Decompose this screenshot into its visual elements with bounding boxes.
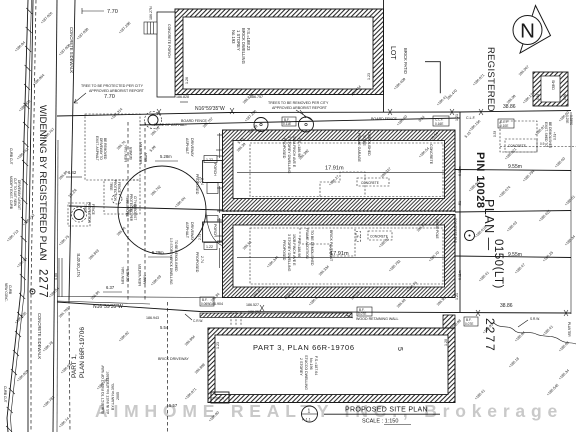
text EXIST 3 STOREY rotated mid [169,238,178,285]
sidewalk west line [57,140,58,432]
svg-text:FRAME GARAGE: FRAME GARAGE [357,133,361,163]
svg-text:A-1.1: A-1.1 [302,418,311,422]
text 7.70 lower [104,94,115,100]
exist shed to be demolished dashed [493,121,557,152]
svg-text:186.527: 186.527 [246,303,259,307]
svg-text:38.86: 38.86 [503,104,516,110]
svg-text:TREES TO BE REMOVED PER C: TREES TO BE REMOVED PER CITY [268,101,329,105]
svg-text:38.86: 38.86 [500,303,513,309]
svg-text:186.27N: 186.27N [149,6,153,20]
svg-text:N: N [520,20,535,43]
svg-text:C.L.F.: C.L.F. [435,118,443,122]
svg-text:AIMHOME REALTY INC., Brokerage: AIMHOME REALTY INC., Brokerage [95,401,563,421]
svg-text:NEW WATER: NEW WATER [138,264,142,286]
svg-text:N16°59'35"W: N16°59'35"W [93,304,123,310]
svg-text:186.257: 186.257 [248,310,261,314]
svg-text:2.74: 2.74 [200,256,204,263]
text 2 STOREY STUCCO DWELLING [299,355,318,390]
text NEW SAN SEWER lower [121,266,130,284]
svg-text:C.R.W.: C.R.W. [193,319,203,323]
svg-text:FENCE: FENCE [117,182,121,193]
top area labels [110,21,407,123]
street curb west edge [7,0,32,432]
svg-text:192B FINCH AVE E: 192B FINCH AVE E [292,234,296,266]
svg-text:CONCRETE PORCH: CONCRETE PORCH [167,24,171,59]
svg-text:DRIVEWAY: DRIVEWAY [190,138,194,157]
tree circle 2 [254,118,268,132]
svg-text:F.S.=186.96: F.S.=186.96 [297,238,301,257]
title bubble [302,406,318,422]
svg-text:0.06W: 0.06W [201,302,210,306]
svg-text:N16°59'35"W: N16°59'35"W [195,106,225,112]
svg-text:PORCH: PORCH [213,224,217,237]
svg-text:2 STOREY: 2 STOREY [299,358,303,376]
text 1.22 lower [204,243,217,250]
svg-text:PART 3, PLAN 66R-19706: PART 3, PLAN 66R-19706 [253,343,355,352]
svg-text:5.57: 5.57 [169,403,178,408]
dashed stub lines [231,312,241,325]
text 5.29m [148,250,172,257]
svg-text:6.11m: 6.11m [458,270,462,280]
svg-text:CURB: CURB [8,285,12,294]
upper dwelling spot labels [236,132,439,187]
svg-text:9.55m: 9.55m [508,252,522,258]
svg-text:REGISTERED: REGISTERED [485,47,496,112]
svg-text:DEMOLISHED: DEMOLISHED [367,132,371,156]
street centerline dashed [31,0,36,432]
svg-text:6.37: 6.37 [106,285,115,290]
svg-text:WIDENING BY REGISTERED PLAN: WIDENING BY REGISTERED PLAN [37,105,48,261]
svg-text:No.193: No.193 [231,30,236,44]
svg-text:7.70: 7.70 [104,94,115,100]
label B.F. 0.07E mid [357,307,372,316]
svg-text:BE REMOVED: BE REMOVED [103,138,107,160]
board fence line [140,117,460,125]
svg-text:FENCE: FENCE [91,204,95,215]
right lot edge vertical 2 [570,112,572,314]
svg-text:PROPOSED: PROPOSED [282,240,286,261]
bottom left spot labels [96,331,220,423]
svg-text:AS IN INST. No.ATB41897,: AS IN INST. No.ATB41897, [106,371,110,414]
svg-text:DRIVEWAY: DRIVEWAY [190,222,194,241]
svg-text:9.55m: 9.55m [508,164,522,170]
north boundary line [57,108,571,116]
svg-text:APPROVED ARBORIST REPORT: APPROVED ARBORIST REPORT [272,106,328,110]
svg-text:CONCRETE: CONCRETE [361,181,379,185]
svg-text:No.196: No.196 [309,358,313,370]
svg-text:DRIVEWAY TO: DRIVEWAY TO [99,138,103,160]
svg-text:PLANTER: PLANTER [567,322,571,337]
svg-text:1.22: 1.22 [206,158,213,162]
text PROPOSED SITE PLAN [324,407,440,425]
porch stairs [144,22,157,34]
tree circle 3 [299,117,314,132]
lower dwelling demolition outline [250,228,443,284]
svg-text:EXIST. SHED TO: EXIST. SHED TO [544,122,548,147]
porch dimension column [217,133,222,268]
tree circle 1 [145,112,162,129]
svg-text:DRIVEWAY LAYOUT: DRIVEWAY LAYOUT [17,180,21,210]
text 7.70 top [82,8,118,15]
building No.193 walls [175,9,384,95]
svg-text:1.20: 1.20 [444,339,448,346]
svg-text:6.42: 6.42 [68,170,77,175]
lower dwelling spot labels [242,222,440,293]
svg-text:C.L.F.: C.L.F. [466,116,476,120]
svg-text:4.00: 4.00 [54,273,58,280]
svg-text:1.5 STOREY BRICK DWELLING: 1.5 STOREY BRICK DWELLING [169,238,173,285]
shed hatched [533,72,568,106]
svg-text:0.9: 0.9 [540,142,545,146]
svg-text:0.31+: 0.31+ [553,132,557,140]
building No.196 right wall extension [443,315,455,328]
svg-text:APPROVED ARBORIST REPORT: APPROVED ARBORIST REPORT [89,89,145,93]
curb hatch ticks [6,8,32,432]
south boundary small labels [146,292,570,397]
concrete pad lower [356,231,392,242]
street edge line [53,0,57,432]
right lot edge vertical [459,112,461,312]
svg-text:BY-LAW No.393-: BY-LAW No.393- [111,382,115,410]
svg-text:0.16E: 0.16E [435,122,443,126]
right side rotated dims [455,114,472,300]
text TREE TO BE PROTECTED note [74,84,145,103]
new sanitary sewer dashed [127,122,129,300]
svg-text:1.23: 1.23 [216,342,220,349]
svg-text:PROPOSED: PROPOSED [195,174,199,195]
lower dwelling 192B walls [223,215,456,298]
text 6.42 with dim [66,170,82,177]
svg-text:WOOD RETAINING WALL: WOOD RETAINING WALL [356,317,399,321]
lot line right middle [455,211,571,213]
svg-text:0.11E: 0.11E [283,122,291,126]
svg-text:SCALE : 1:150: SCALE : 1:150 [362,419,398,425]
driveway arc to porch [206,212,223,246]
svg-text:F.S.=187.64: F.S.=187.64 [314,356,318,375]
svg-text:NEW SAN.: NEW SAN. [124,144,128,162]
wood retaining wall [200,313,399,321]
label C.L.F. 0.10E [498,119,514,128]
svg-text:2.74: 2.74 [200,178,204,185]
svg-text:CONCRETE PAD: CONCRETE PAD [453,218,457,244]
label C.L.F. mid [433,116,449,126]
text PROPOSED ASPHALT DRIVEWAY lower [185,222,204,273]
text WOOD POLE [435,218,475,244]
text 5.28m [155,154,178,161]
svg-text:0.07E: 0.07E [465,322,473,326]
svg-text:CURB CUT: CURB CUT [9,148,13,165]
svg-text:17.91m: 17.91m [325,166,344,172]
upper dwelling demolition outline [250,143,443,197]
lot line right 9.55 upper [455,170,571,171]
svg-text:1.23: 1.23 [367,73,371,80]
svg-text:PROPOSED SITE PLAN: PROPOSED SITE PLAN [345,407,428,414]
upper dwelling 192A walls [223,130,456,211]
text PART 1 PLAN 66R-19706 [71,327,86,378]
svg-text:TREE TO BE PROTECTED PER: TREE TO BE PROTECTED PER CITY [81,84,144,88]
svg-text:EXIST. ASPHALT: EXIST. ASPHALT [95,136,99,161]
svg-text:BRICK DRIVEWAY: BRICK DRIVEWAY [158,357,189,361]
dashed line right upper [500,146,576,148]
dashed line brick driveway west [167,302,169,432]
text FRAME GARAGE TO BE DEMOLISHED [357,132,371,163]
svg-text:CONCRETE: CONCRETE [508,144,526,148]
upper porch [198,161,222,194]
north arrow [513,6,551,54]
svg-text:3 STOREY DWELLING: 3 STOREY DWELLING [287,136,291,174]
svg-text:F.S.=188.23: F.S.=188.23 [246,28,251,51]
svg-text:CUT TO SUIT NEW: CUT TO SUIT NEW [13,178,17,206]
svg-text:3 STOREY DWELLING: 3 STOREY DWELLING [287,234,291,272]
text PROPOSED 3 STOREY 192A [282,136,301,174]
svg-text:TO BE DEMOLISHED: TO BE DEMOLISHED [174,240,178,272]
svg-text:186.943: 186.943 [146,316,159,320]
svg-text:PLAN 66R-19706: PLAN 66R-19706 [79,327,86,378]
svg-text:2005: 2005 [116,392,120,400]
svg-text:NEW WATER: NEW WATER [139,142,143,164]
svg-text:ASPHALT: ASPHALT [185,138,189,155]
text TREES TO BE REMOVED note [268,101,329,121]
sidewalk east line [69,0,75,300]
svg-text:FRAME ADDITION: FRAME ADDITION [305,228,309,259]
svg-text:MAIN: MAIN [144,153,148,162]
svg-text:6.11m: 6.11m [458,166,462,176]
porch No.196 [211,392,229,403]
svg-text:SUBJECT TO RIGHT OF WAY: SUBJECT TO RIGHT OF WAY [101,364,105,414]
svg-text:BRICK PATIO: BRICK PATIO [403,48,408,75]
svg-text:PROPOSED: PROPOSED [195,252,199,273]
svg-text:ASPHALT: ASPHALT [185,222,189,239]
svg-text:SEWER: SEWER [126,268,130,282]
svg-text:.51: .51 [458,201,462,206]
svg-text:PART 1,: PART 1, [71,354,78,378]
svg-text:0.56: 0.56 [563,94,567,100]
lot line between dwellings [69,206,455,212]
svg-text:CONCRETE: CONCRETE [429,144,433,165]
svg-text:BOARD FENCE: BOARD FENCE [371,117,398,121]
svg-text:NEW CONC.: NEW CONC. [4,283,8,302]
svg-text:SEWER: SEWER [129,146,133,160]
text 1.22 upper [204,156,217,163]
svg-text:BE DEMOLISHED: BE DEMOLISHED [548,122,552,149]
svg-text:S.R.W.: S.R.W. [530,317,540,321]
driveway spot labels [116,140,187,287]
south boundary line [57,297,571,317]
svg-text:17.91m: 17.91m [330,251,349,257]
svg-text:TREE: TREE [83,204,87,213]
svg-text:LOT: LOT [389,46,396,60]
shed dim labels [436,65,536,107]
svg-text:EDGE OF ASPHALT: EDGE OF ASPHALT [154,123,188,127]
building No.196 walls [208,328,455,403]
svg-text:CONCRETE SIDEWALK: CONCRETE SIDEWALK [37,313,42,359]
svg-text:186.757: 186.757 [250,95,263,99]
svg-text:1.21: 1.21 [455,114,459,121]
svg-text:192A FINCH AVE E: 192A FINCH AVE E [292,136,296,168]
dim ticks at dwelling face [216,150,223,236]
svg-text:MAIN: MAIN [143,275,147,284]
text CONCRETE upper [357,178,389,186]
svg-text:5: 5 [396,347,403,351]
text NEW CONC CURB [4,283,12,302]
svg-text:PROTECTION: PROTECTION [113,180,117,202]
svg-text:STUCCO DWELLING: STUCCO DWELLING [304,355,308,390]
concrete porch No.193 [157,12,175,97]
svg-text:1.21: 1.21 [455,293,459,300]
text SUBJECT TO RIGHT OF WAY [101,364,120,414]
svg-text:1.22: 1.22 [206,245,213,249]
svg-text:PORCH: PORCH [213,163,217,176]
svg-text:PROPOSED: PROPOSED [282,138,286,159]
label B.F. 0.16E [282,117,296,126]
driveway turning circle [118,166,206,254]
text MODIFY EXIST CURB CUT [9,176,21,210]
utility circle [30,289,35,294]
tree protection fence area [68,114,140,226]
svg-text:0.10E: 0.10E [500,124,508,128]
svg-text:186.828: 186.828 [176,95,189,99]
svg-text:CURB CUT: CURB CUT [3,386,7,403]
svg-text:1.26: 1.26 [185,77,189,84]
svg-text:CONCRETE SIDEWALK: CONCRETE SIDEWALK [69,27,74,73]
text 6.37 with dim [103,285,122,292]
text C.R.W. [185,314,203,323]
svg-text:MODIFY EXIST. CURB: MODIFY EXIST. CURB [9,176,13,209]
svg-text:2277: 2277 [37,269,49,299]
text FRAME ADDITION [305,228,314,266]
patio lot line [383,0,385,112]
svg-text:WOOD POLE: WOOD POLE [435,219,439,239]
street elevation labels [6,11,101,429]
svg-text:PORCH: PORCH [213,397,225,401]
svg-text:0.64: 0.64 [536,94,540,100]
svg-text:SHED: SHED [551,80,555,90]
text NEW WATER MAIN upper [139,142,148,164]
svg-text:0150(LT): 0150(LT) [492,239,504,289]
svg-text:0.33: 0.33 [493,131,497,137]
svg-text:TO BE DEMOLISHED: TO BE DEMOLISHED [310,230,314,266]
right field spot labels [468,111,576,283]
text PROPOSED 3 STOREY 192B [282,234,301,272]
svg-text:PROTECTION: PROTECTION [87,202,91,224]
curb line x30 [28,0,33,432]
svg-text:BRICK DWELLING: BRICK DWELLING [241,28,246,64]
new water main dashed [144,122,146,300]
lower porch [198,216,222,243]
SRW wavy line [493,317,576,344]
text NEW SAN SEWER upper [124,144,133,162]
svg-text:1: 1 [308,409,311,415]
svg-text:N17°05'40"E: N17°05'40"E [76,253,81,277]
north boundary extra ticks [388,109,454,115]
svg-text:0.07E: 0.07E [358,312,366,316]
text NEW WATER MAIN lower [138,264,147,286]
svg-text:NEW SAN.: NEW SAN. [121,266,125,284]
svg-text:TO BE: TO BE [362,135,366,146]
text PROPOSED ASPHALT DRIVEWAY upper [185,138,204,195]
4.00 dimension [54,258,62,297]
svg-text:TREE: TREE [109,182,113,191]
text No.193 BRICK DWELLING [231,28,251,64]
svg-text:1 STOREY: 1 STOREY [236,30,241,51]
label B.F. 0.07E right [464,317,478,326]
svg-text:7.70: 7.70 [107,9,118,15]
lot line right 9.55 lower [455,256,571,258]
extra spot labels [126,115,570,401]
svg-text:5.28m: 5.28m [160,154,172,159]
